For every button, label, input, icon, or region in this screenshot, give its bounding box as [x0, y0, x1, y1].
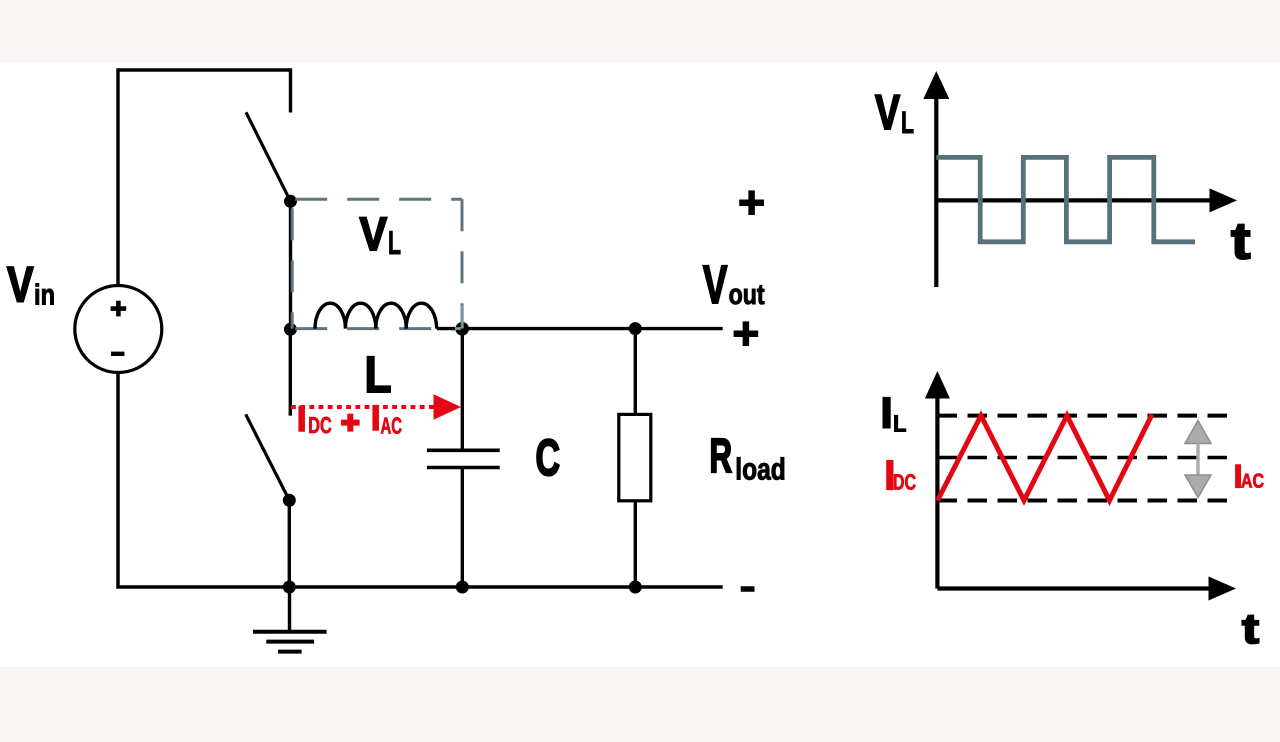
svg-text:L: L [365, 346, 392, 403]
svg-text:t: t [1242, 605, 1259, 652]
capacitor wire bottom [461, 468, 464, 588]
red triangle wave IL [938, 415, 1153, 501]
svg-text:L: L [388, 224, 401, 261]
graph2 y-axis [935, 397, 939, 589]
graph1 x-axis arrowhead [1210, 188, 1238, 212]
junction dot at Rload top [629, 322, 642, 335]
dashed measurement box VL [292, 199, 462, 328]
resistor Rload body [619, 414, 651, 500]
minus sign inside source [111, 352, 124, 356]
open node at inductor output [455, 322, 469, 336]
svg-text:V: V [703, 255, 728, 315]
svg-text:AC: AC [1241, 471, 1264, 493]
svg-text:C: C [536, 429, 561, 486]
switch S1 blade [246, 112, 291, 201]
red current arrow dotted [291, 405, 437, 409]
ground stem [288, 587, 291, 632]
wire left lower + bottom bus [118, 373, 723, 588]
svg-text:V: V [7, 257, 34, 313]
junction dot inductor left node [284, 323, 297, 336]
junction dot Rload bottom [629, 581, 642, 594]
label + at output wire [734, 321, 759, 346]
inductor L coil [315, 303, 437, 328]
resistor Rload wire top [634, 329, 637, 415]
svg-text:I: I [297, 399, 307, 439]
label + output top [739, 190, 764, 215]
svg-text:t: t [1231, 213, 1251, 271]
junction dot switch2 [283, 494, 296, 507]
graph2 x-axis arrowhead [1209, 577, 1237, 601]
gray arrow stem [1196, 444, 1199, 476]
svg-text:R: R [710, 430, 733, 483]
dashed line top (IL max) [938, 414, 1238, 418]
bottom band [0, 667, 1280, 742]
voltage source Vin circle [75, 286, 162, 373]
switch S2 blade [246, 414, 290, 500]
wire switch1 to inductor node [289, 201, 292, 329]
svg-text:L: L [901, 105, 914, 140]
gray arrow down [1185, 475, 1211, 498]
wire top-left loop [118, 70, 291, 286]
label - at bus end [741, 586, 755, 592]
svg-text:load: load [735, 452, 786, 486]
top band [0, 0, 1280, 63]
junction dot ground tap [283, 581, 296, 594]
red arrowhead [434, 394, 462, 419]
graph1 y-axis [934, 97, 938, 287]
graph2 y-axis arrowhead [925, 371, 950, 399]
square wave VL [936, 157, 1195, 241]
label IDC + IAC [297, 398, 402, 439]
svg-text:L: L [893, 411, 907, 437]
svg-text:out: out [729, 279, 765, 311]
gray arrow up [1185, 421, 1211, 444]
svg-text:DC: DC [893, 470, 916, 495]
ground symbol [253, 632, 327, 652]
svg-text:V: V [875, 86, 900, 140]
graph1 x-axis [936, 198, 1212, 202]
plus sign inside source [111, 301, 127, 317]
graph2 x-axis [937, 586, 1211, 590]
dashed line bottom (IL min) [938, 499, 1238, 503]
dashed line middle (IDC) [938, 456, 1238, 460]
svg-text:I: I [371, 398, 381, 438]
graph1 y-axis arrowhead [923, 71, 949, 99]
capacitor C plates [427, 450, 500, 467]
svg-text:V: V [360, 207, 388, 260]
junction dot switch1 [284, 195, 297, 208]
output wire from inductor [437, 327, 723, 330]
wire inductor node down to switch2 [289, 329, 292, 416]
svg-text:DC: DC [308, 412, 332, 438]
svg-text:in: in [34, 279, 55, 311]
resistor Rload wire bottom [634, 501, 637, 587]
gray dash corner over node [455, 305, 463, 329]
svg-text:AC: AC [381, 412, 403, 438]
capacitor wire top [461, 329, 464, 449]
svg-text:I: I [881, 390, 893, 438]
wire switch2 to bus [288, 500, 291, 587]
junction dot capacitor bottom [456, 581, 469, 594]
